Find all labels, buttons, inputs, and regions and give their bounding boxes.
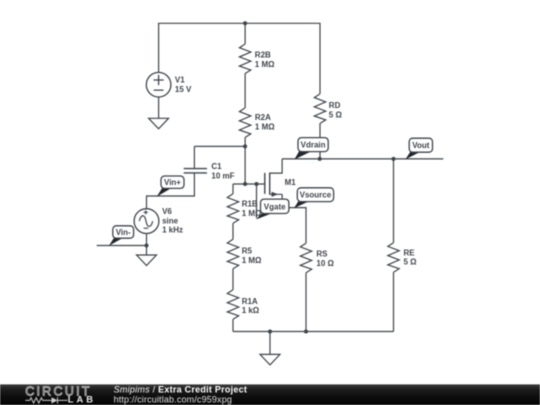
svg-text:R1B: R1B <box>242 200 258 209</box>
svg-text:1 MΩ: 1 MΩ <box>242 256 262 265</box>
svg-text:5 Ω: 5 Ω <box>329 111 343 120</box>
svg-text:RS: RS <box>316 250 328 259</box>
svg-text:LAB: LAB <box>68 395 96 405</box>
svg-text:http://circuitlab.com/c959xpg: http://circuitlab.com/c959xpg <box>114 394 232 404</box>
svg-text:10 Ω: 10 Ω <box>316 259 334 268</box>
svg-text:R2A: R2A <box>255 113 271 122</box>
svg-text:Vin+: Vin+ <box>164 178 181 187</box>
svg-text:1 MΩ: 1 MΩ <box>255 60 275 69</box>
svg-text:C1: C1 <box>211 162 222 171</box>
svg-text:1 kHz: 1 kHz <box>162 226 183 235</box>
svg-text:1 kΩ: 1 kΩ <box>242 306 260 315</box>
svg-text:R5: R5 <box>242 247 253 256</box>
svg-text:V1: V1 <box>175 76 185 85</box>
svg-text:RE: RE <box>404 248 416 257</box>
svg-text:Vout: Vout <box>412 141 430 150</box>
svg-text:R1A: R1A <box>242 297 258 306</box>
svg-text:Vin-: Vin- <box>116 228 131 237</box>
svg-text:Vdrain: Vdrain <box>301 141 326 150</box>
svg-text:1 MΩ: 1 MΩ <box>255 123 275 132</box>
svg-text:Vsource: Vsource <box>300 191 332 200</box>
svg-text:Vgate: Vgate <box>264 202 286 211</box>
svg-text:Smipims / Extra Credit Project: Smipims / Extra Credit Project <box>114 385 248 395</box>
svg-text:10 mF: 10 mF <box>211 172 234 181</box>
svg-text:15 V: 15 V <box>175 85 192 94</box>
svg-text:M1: M1 <box>285 178 297 187</box>
svg-text:RD: RD <box>329 101 341 110</box>
svg-text:R2B: R2B <box>255 51 271 60</box>
svg-text:5 Ω: 5 Ω <box>404 258 418 267</box>
svg-text:V6: V6 <box>162 207 172 216</box>
svg-text:sine: sine <box>162 216 179 225</box>
